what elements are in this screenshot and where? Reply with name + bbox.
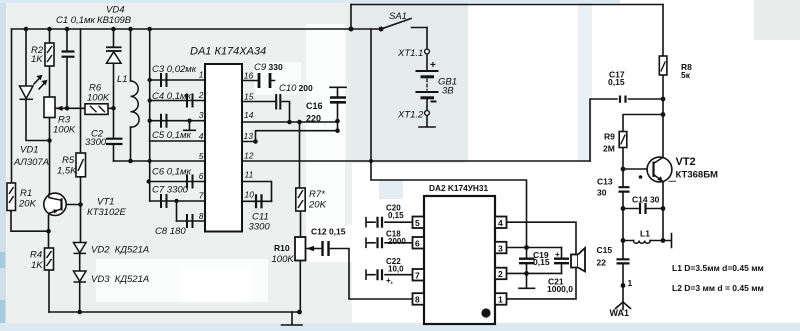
battery minus sign [431,101,437,103]
wire DA1 pin8 [177,220,206,222]
background left blue dark chunk2 [0,300,5,331]
junction emitter column / L1 right [661,238,666,243]
background bottom blue strip [0,323,800,331]
junction pin7 wire / pin8 riser [174,199,178,203]
junction R3 bottom node [47,138,52,143]
svg-text:+: + [555,250,560,259]
IC DA2 pin box 8 [413,293,425,305]
junction ground rail / pin6 wire [147,179,151,183]
background faint blue strip right [578,0,592,162]
svg-text:C8 180: C8 180 [155,226,186,237]
svg-text:C1 0,1мк: C1 0,1мк [56,15,96,26]
svg-text:5к: 5к [681,70,691,80]
svg-text:КТ3102Е: КТ3102Е [87,207,127,218]
junction VT1 base / R5 / VD2 [78,202,83,207]
wire DA1 pin8 riser [176,201,178,221]
wire C17 row [590,99,663,161]
junction R6 / VD4 / C2 node [111,106,116,111]
svg-text:4: 4 [498,218,503,228]
svg-text:C5 0,1мк: C5 0,1мк [152,130,192,141]
wire VD4 column [113,29,115,108]
junction ground rail / pin5 wire [148,159,152,163]
resistor R8 [659,56,667,75]
wire L1 left column bottom [130,127,132,161]
svg-text:C14 30: C14 30 [632,195,660,205]
svg-text:0,15: 0,15 [388,211,404,220]
junction R9 / VT2 base / C13 [621,167,626,172]
transistor VT1 [44,193,66,215]
capacitor C22 [378,269,383,280]
svg-text:R9: R9 [604,132,615,142]
IC DA2 pin box 7 [413,269,425,281]
svg-text:5: 5 [415,218,420,228]
svg-text:SA1: SA1 [389,11,407,22]
junction pin14 wire / C16 lead [335,119,340,124]
junction L1 bottom / pin5 wire [128,159,133,164]
svg-text:13: 13 [244,131,254,141]
wire top bus right [351,4,663,6]
capacitor C17 [620,96,626,103]
svg-text:8: 8 [199,211,204,221]
battery GB1 plates [417,71,438,98]
svg-text:VD2 КД521А: VD2 КД521А [91,245,149,256]
wire supply riser to DA2 [371,29,527,248]
svg-text:1K: 1K [31,260,43,271]
svg-text:2: 2 [198,90,204,100]
svg-text:200: 200 [299,83,313,93]
capacitor C10 [276,94,280,110]
wire LED column [26,29,50,141]
wire L1 left column top [130,29,132,81]
junction C10 / pin14 wire [287,120,292,125]
wire L1 right row left [623,209,634,241]
wire DA2 pin2 [507,272,562,274]
svg-text:R5: R5 [62,155,75,166]
varicap VD4 [106,47,122,63]
terminal XT1.1 [425,49,430,54]
capacitor C16 [330,98,346,103]
svg-text:4: 4 [199,131,204,141]
svg-text:1: 1 [199,70,204,80]
junction top bus / ground rail [147,27,152,32]
svg-text:20K: 20K [308,200,327,211]
svg-text:VT1: VT1 [97,197,114,208]
svg-text:DA1 К174ХА34: DA1 К174ХА34 [190,46,266,58]
capacitor C19 [519,259,535,264]
background top blue strip [0,0,620,3]
wire SA1 contact [412,27,428,29]
wire C2 column [113,108,115,161]
svg-text:R10: R10 [274,243,290,253]
svg-text:7: 7 [415,271,420,281]
resistor R10 potentiometer [295,237,316,261]
svg-text:0,15: 0,15 [533,257,550,267]
IC DA2 box [424,196,495,324]
wire battery to XT1.2 and end bar [419,99,435,127]
antenna WA1 fork [616,302,631,310]
svg-text:L2 D=3 мм d = 0.45 мм: L2 D=3 мм d = 0.45 мм [672,283,764,293]
wire DA1 pin10 [242,200,272,202]
resistor R7 [296,188,305,211]
capacitor C20 [378,217,383,228]
wire VT2 base [623,168,654,170]
background gray top-right corner [754,0,800,40]
wire R4 bottom [48,270,50,312]
resistor R6 [85,104,108,115]
background pale blue band near DA2 top [379,180,403,199]
junction ground rail / pin1 wire [148,78,152,82]
svg-text:1K: 1K [31,54,43,65]
diode VD2 [74,243,87,254]
inductor L1 right coil [634,241,651,244]
junction pin3 wire / stub [187,119,191,123]
wire DA2 pin7 input [366,270,413,279]
junction bus / riser to top rail [349,27,354,32]
junction ground rail / pin3 wire [148,119,152,123]
svg-text:3300: 3300 [85,137,107,148]
background battery band [348,2,468,162]
wire C14 row [623,208,663,210]
wire R9 bottom [622,148,624,170]
wire DA1 pin4 [150,140,205,142]
junction C19 lead / pin2 wire [524,271,529,276]
svg-text:1,5K: 1,5K [57,166,77,177]
wire SA1 lever [381,19,411,30]
junction VT1 emitter / R1 / R4 [46,229,51,234]
resistor R1 [7,183,16,211]
capacitor C21 [554,259,569,264]
junction pin14 wire / R7 column [297,120,302,125]
junction pin13 wire / C16 lead [335,128,340,133]
svg-text:1: 1 [498,295,503,305]
capacitor C4 [187,94,193,108]
background left blue dark chunk [0,252,5,268]
svg-text:L1: L1 [117,74,128,85]
svg-text:330: 330 [269,62,283,72]
svg-text:C9: C9 [254,62,267,73]
capacitor C5 [161,114,167,128]
wire DA1 pin3 stub bar [184,121,196,131]
capacitor C15 [617,259,630,263]
svg-text:10: 10 [245,190,255,200]
wire C1 column [66,29,68,108]
svg-text:100K: 100K [272,254,295,265]
IC DA2 pin box 1 [495,293,507,305]
svg-text:15: 15 [244,92,254,102]
capacitor C7 [161,194,167,208]
wire VT1 base [62,204,81,206]
background white patch C16 label [306,24,345,262]
wire DA1 pin2 [150,100,205,102]
junction R10 / bottom bus [297,310,302,315]
svg-text:+,: +, [386,276,393,285]
resistor R5 [76,153,86,177]
junction C15 / L1 right coil left [621,238,626,243]
battery GB1 dashed link [426,79,428,90]
svg-text:7: 7 [199,191,204,201]
wire R9 top link [623,115,663,132]
junction ground rail / pin2 wire [148,98,152,102]
svg-text:10,0: 10,0 [388,265,404,274]
wire DA1 pin11 loop [242,182,272,202]
junction C13 / C14 left [621,206,626,211]
svg-text:WA1: WA1 [610,308,630,318]
svg-text:22: 22 [597,258,607,268]
junction C19 top / pin3 wire [524,245,529,250]
wire VT1 emitter down [48,215,50,248]
IC DA1 box [205,64,242,232]
junction VT2 emitter / C14 right [661,206,666,211]
wire DA1 pin1 [150,79,205,81]
junction top bus / VD4 column [111,27,116,32]
svg-text:30: 30 [597,188,607,198]
wire DA1 pin6 [149,181,205,183]
junction top bus / C1 column [65,27,70,32]
svg-text:L1 D=3.5мм d=0.45 мм: L1 D=3.5мм d=0.45 мм [672,263,764,273]
resistor R2 [45,43,54,66]
speaker BA1 [571,248,585,272]
wire diode column [79,205,82,313]
svg-text:C10: C10 [279,83,297,94]
wire C13 column [622,169,624,209]
terminal XT1.2 [425,111,430,116]
wire ground stub bottom bus [282,312,303,325]
svg-text:XT1.1: XT1.1 [397,48,423,59]
svg-text:100K: 100K [87,93,110,104]
svg-text:11: 11 [245,170,254,180]
transistor VT2 [647,157,672,182]
junction top bus / R2 column [47,27,52,32]
wire top bus left [12,28,382,30]
IC DA2 pin box 5 [413,217,425,229]
wire XT1.1 down to battery [426,28,428,71]
svg-text:XT1.2: XT1.2 [397,110,424,121]
svg-text:C15: C15 [597,245,613,255]
svg-text:VD4: VD4 [106,5,124,16]
svg-text:220: 220 [306,114,321,124]
svg-text:14: 14 [244,110,254,120]
wire bottom bus [49,311,300,313]
capacitor C14 [640,203,646,214]
capacitor C18 [378,237,383,248]
background white right top [466,0,800,163]
svg-text:5: 5 [199,151,204,161]
svg-text:АЛ307А: АЛ307А [13,157,49,168]
wire ground rail column x150 [149,29,151,201]
svg-text:VD3 КД521А: VD3 КД521А [91,274,149,285]
capacitor C6 [187,175,193,189]
inductor L1 left coil [131,81,140,127]
svg-text:3В: 3В [442,86,454,97]
wire DA2 pin6 input [366,238,413,247]
capacitor C11 [256,194,262,208]
wire VT2 emitter column [662,182,664,241]
wire DA2 pin5 input [366,218,413,227]
svg-text:100K: 100K [53,125,76,136]
node tap 1 antenna [621,283,626,288]
wire R2 R3 column [49,29,51,193]
svg-text:1000,0: 1000,0 [547,284,573,294]
background left blue strip [0,0,6,331]
IC DA2 key dot [481,308,490,317]
wire DA2 pin4 to speaker [507,222,576,254]
svg-text:+: + [430,60,436,71]
svg-text:2000: 2000 [388,237,406,246]
wire R1 column top [11,29,13,183]
svg-text:0,15: 0,15 [608,77,625,87]
wire R1 bottom to emitter node [11,211,49,232]
capacitor C1 [62,52,75,57]
svg-text:2М: 2М [603,144,615,154]
svg-text:6: 6 [415,239,420,249]
svg-text:VD1: VD1 [20,145,38,156]
wire DA1 pin13 [242,131,338,142]
svg-text:C7 3300: C7 3300 [152,185,189,196]
svg-text:1: 1 [628,278,633,288]
svg-text:R1: R1 [20,188,32,199]
svg-text:16: 16 [244,71,254,81]
wire DA1 pin3 [150,120,205,122]
svg-text:3: 3 [199,110,204,120]
wire C15 column [622,241,624,303]
svg-text:КВ109В: КВ109В [97,15,132,26]
IC DA2 pin box 3 [495,242,507,254]
diode VD3 [74,271,87,282]
wire DA1 pin14 [242,121,338,123]
capacitor C21 leads [561,248,563,274]
wire speaker to DA2 pin1 [507,268,576,299]
capacitor C9 [259,73,270,88]
svg-text:VT2: VT2 [676,156,696,168]
IC DA2 pin box 6 [413,237,425,249]
wire riser to top bus right [350,5,352,30]
IC DA2 pin box 2 [495,268,507,280]
capacitor C3 [161,73,167,87]
wire DA1 pin7 [150,200,205,202]
capacitor C16 leads and top bar [330,87,346,130]
svg-text:КТ368БМ: КТ368БМ [676,169,719,180]
svg-text:C13: C13 [597,177,613,187]
wire R8 column [662,5,664,158]
svg-text:2: 2 [498,269,503,279]
capacitor C12 [323,241,329,256]
junction C1 / wiper wire [65,106,70,111]
capacitor C8 [187,214,193,228]
capacitor C13 [619,187,630,191]
svg-text:C12 0,15: C12 0,15 [311,227,346,237]
svg-text:3300: 3300 [249,222,271,233]
background white patch bottom middle [96,259,268,302]
junction VD3 / bottom bus [77,310,82,315]
svg-text:C16: C16 [306,101,323,111]
junction top bus / L1 column [128,27,133,32]
svg-text:DA2 K174УН31: DA2 K174УН31 [429,183,489,193]
wire DA2 pin3 to C21 [507,247,562,249]
wire DA1 pin15 C10 [242,102,290,123]
wire DA1 pin12 supply bus [242,160,590,162]
node dash mark near VT2 emitter [669,180,677,182]
resistor R3 potentiometer [44,97,64,118]
svg-text:3: 3 [498,243,503,253]
svg-text:8: 8 [415,295,420,305]
svg-text:C3 0,02мк: C3 0,02мк [152,64,197,75]
wire L1 right row right and end bar [650,234,672,248]
svg-text:C6 0,1мк: C6 0,1мк [152,167,192,178]
wire C19 column [519,248,535,289]
junction supply bus / riser [369,159,373,163]
svg-text:6: 6 [199,171,204,181]
IC DA2 pin box 4 [495,217,507,229]
svg-text:R7*: R7* [309,189,325,200]
background white patch R10 C12 labels [308,225,354,262]
svg-text:R4: R4 [30,250,42,261]
junction C17 / R8 column [661,97,666,102]
wire DA1 pin5 [114,160,206,162]
junction top bus / VD1 column [24,27,29,32]
node stray dot near VT2 base [639,175,643,179]
wire R10 wiper to C12 to DA2 pin8 [307,249,413,300]
background white lower right [352,163,800,323]
svg-text:20K: 20K [18,199,37,210]
wire R7 R10 column [300,122,301,312]
wire R5 column [80,29,82,205]
capacitor C2 [106,139,123,144]
led VD1 [20,75,48,100]
resistor R9 [619,132,627,148]
svg-text:12: 12 [244,151,254,161]
svg-text:L1: L1 [640,229,650,239]
junction R9 wire / R8 column [661,112,666,117]
junction pin13 wire / riser [253,139,258,144]
wire DA1 pin16 C9 [242,80,275,82]
resistor R4 [45,248,54,270]
junction SA1 pivot [379,27,384,32]
wire R3 wiper to R6 [56,107,114,109]
svg-text:C4 0,1мк: C4 0,1мк [152,91,192,102]
